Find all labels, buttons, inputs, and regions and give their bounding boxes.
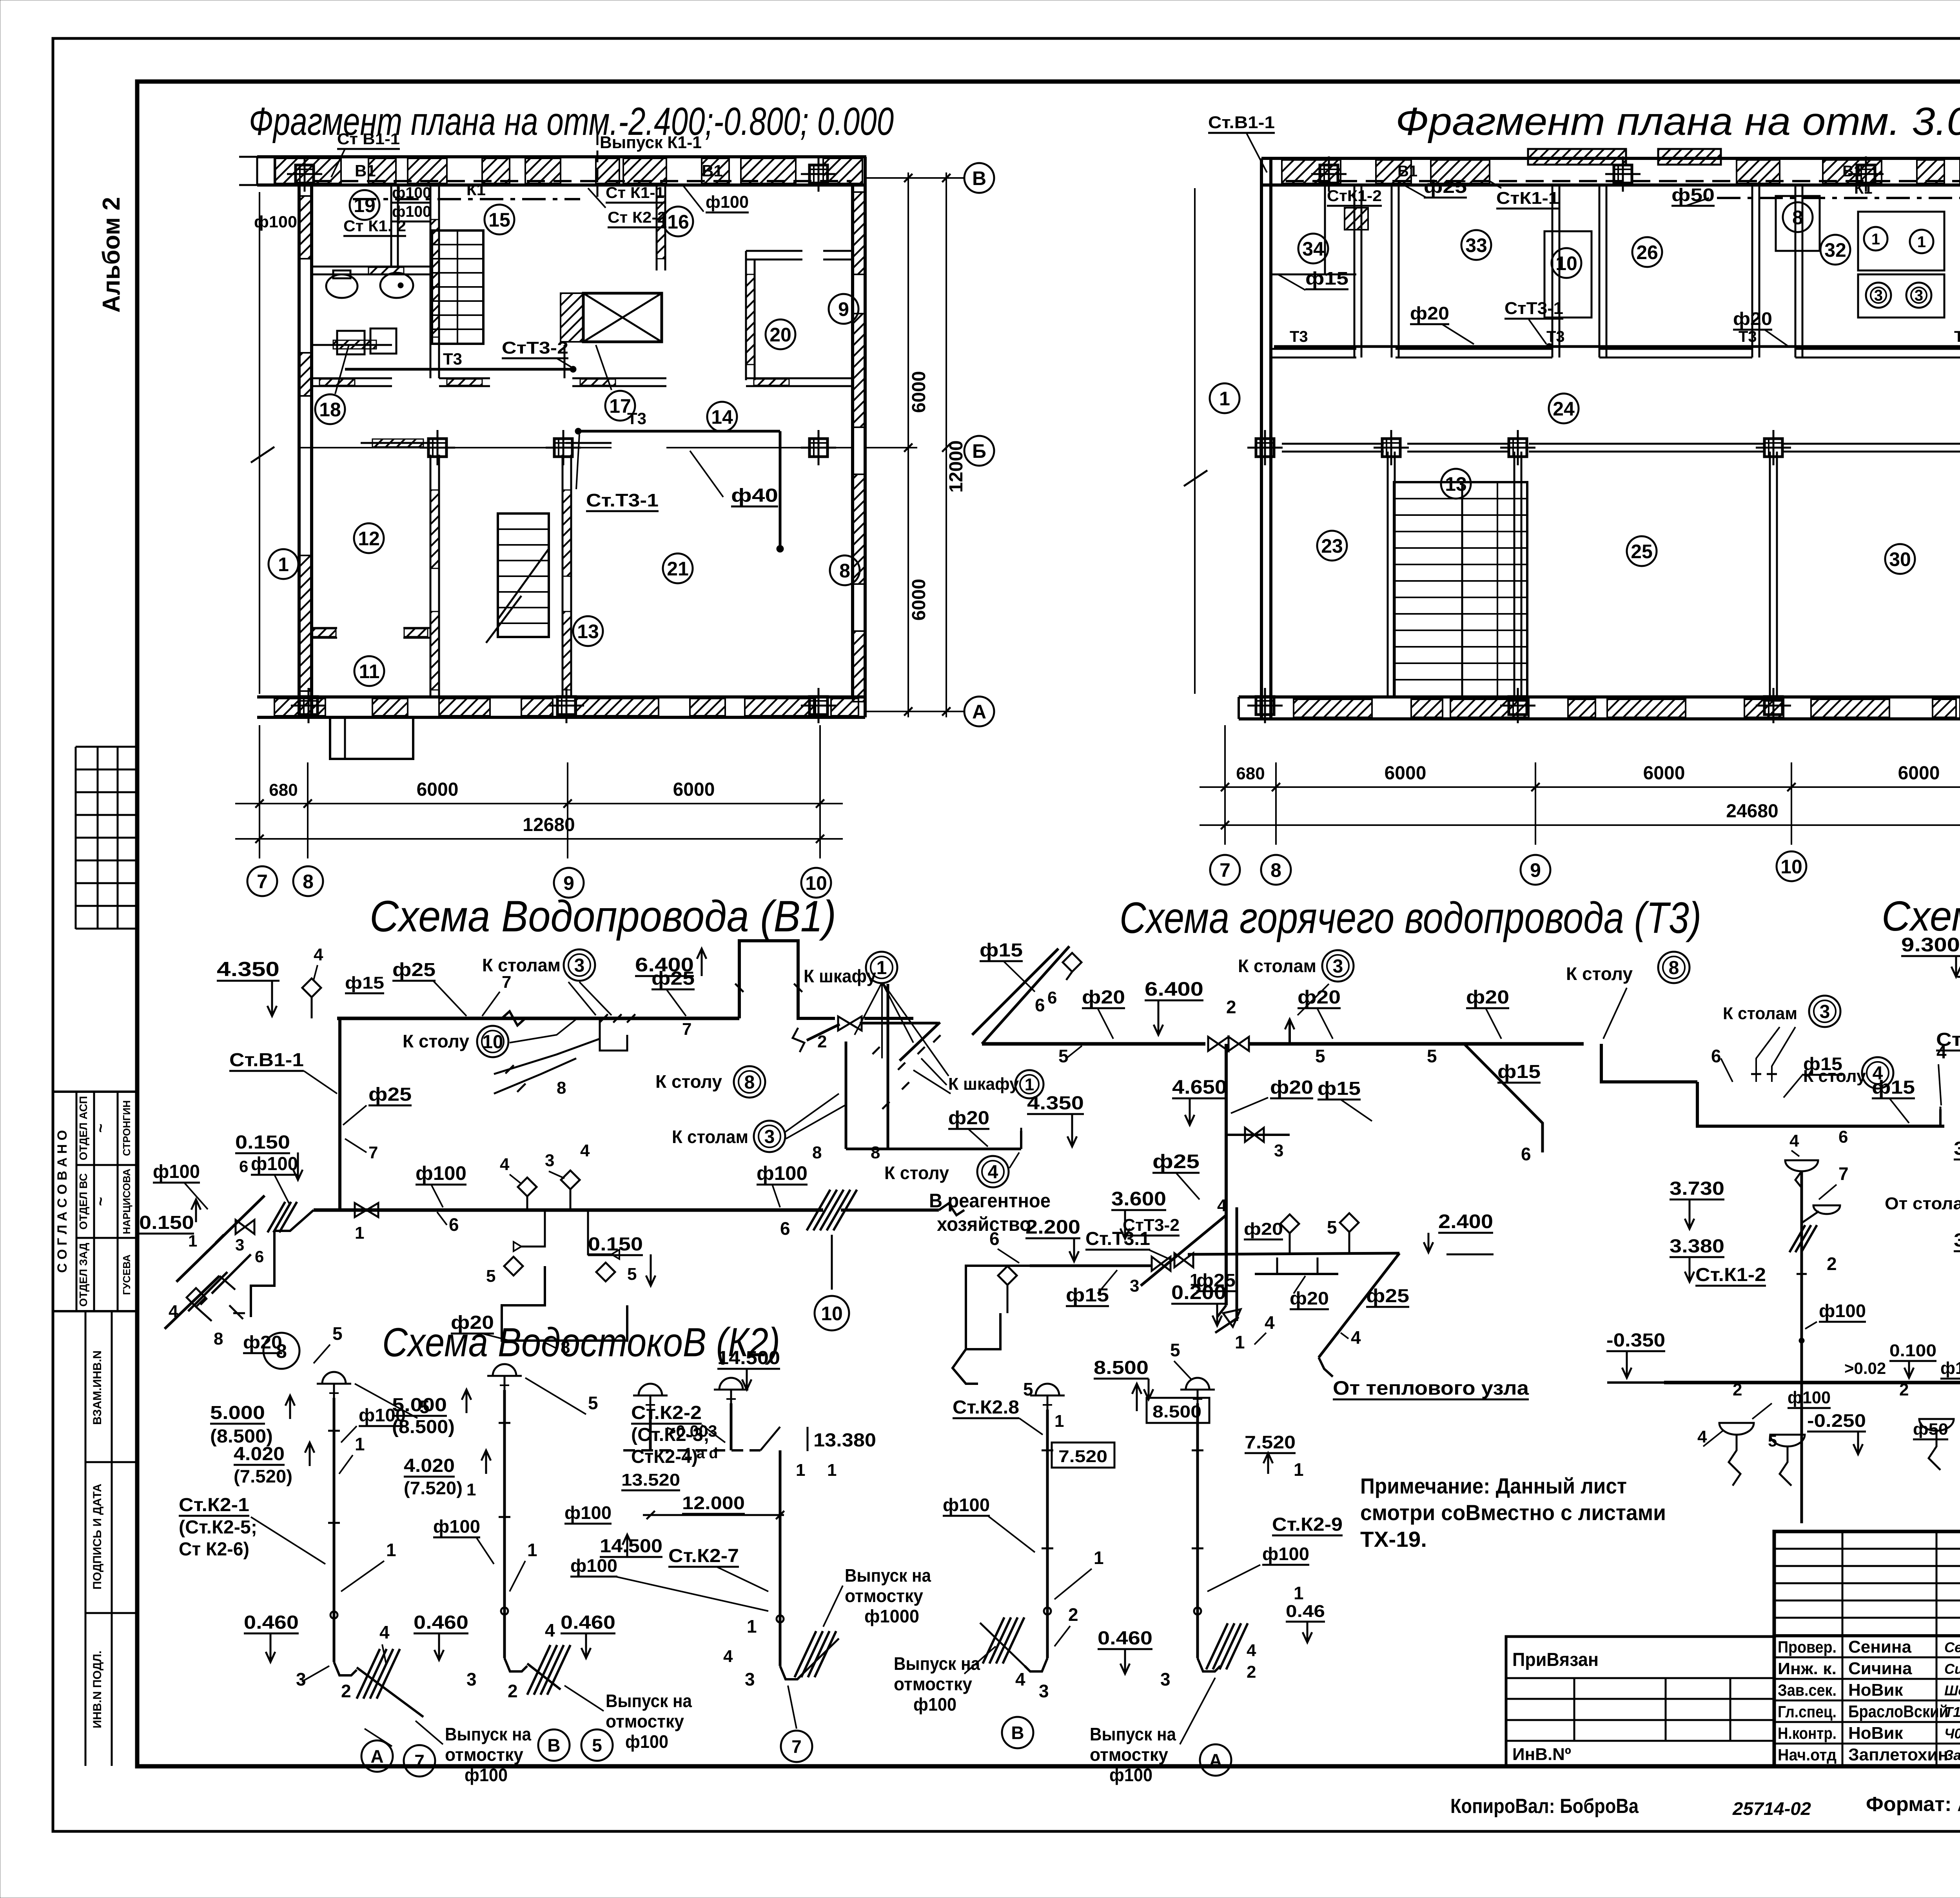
- svg-text:6: 6: [449, 1214, 459, 1235]
- svg-text:1: 1: [877, 958, 887, 978]
- svg-text:К столу: К столу: [403, 1031, 469, 1051]
- svg-text:ф20: ф20: [1466, 987, 1509, 1008]
- svg-text:5: 5: [332, 1323, 343, 1344]
- svg-text:В1: В1: [702, 161, 723, 180]
- plan1 pipe V1: [314, 161, 851, 181]
- svg-text:21: 21: [667, 558, 689, 580]
- plan1 label StK1-2: [343, 218, 406, 236]
- V1 label K stolam 3: [482, 949, 612, 1015]
- svg-text:отмостку: отмостку: [845, 1586, 923, 1606]
- svg-text:Примечание: Данный лист: Примечание: Данный лист: [1360, 1473, 1627, 1498]
- svg-text:ГУСЕВА: ГУСЕВА: [121, 1254, 132, 1295]
- svg-text:ф100: ф100: [757, 1162, 808, 1184]
- plan1 bottom dims: [235, 725, 843, 858]
- svg-text:6: 6: [780, 1218, 790, 1239]
- T3 label f20 drop: [1231, 1077, 1313, 1113]
- svg-text:4.020: 4.020: [234, 1444, 285, 1464]
- V1 label v reagentnoe: [929, 1190, 1051, 1235]
- svg-text:4.350: 4.350: [1027, 1093, 1084, 1114]
- svg-text:3.730: 3.730: [1670, 1178, 1724, 1199]
- svg-text:ф15: ф15: [1497, 1062, 1541, 1082]
- plan1 label StK1-1: [606, 184, 664, 203]
- svg-text:2: 2: [1226, 997, 1236, 1017]
- svg-text:НАРЦИСОВА: НАРЦИСОВА: [121, 1169, 132, 1234]
- svg-text:ф100: ф100: [913, 1694, 956, 1715]
- svg-text:Зав.сек.: Зав.сек.: [1778, 1681, 1837, 1699]
- plan2 room circle 26: [1632, 237, 1662, 267]
- svg-text:ИнВ.Nº: ИнВ.Nº: [1512, 1745, 1571, 1764]
- svg-text:В реагентное: В реагентное: [929, 1190, 1051, 1212]
- svg-text:4: 4: [580, 1141, 590, 1160]
- svg-text:5: 5: [592, 1735, 602, 1756]
- svg-text:9.300: 9.300: [1901, 934, 1960, 956]
- svg-text:1: 1: [1094, 1548, 1104, 1568]
- svg-text:(Ст.К2-5;: (Ст.К2-5;: [179, 1517, 257, 1538]
- plan1 column B8 top: [287, 156, 322, 192]
- svg-text:ОТДЕЛ ВС: ОТДЕЛ ВС: [77, 1173, 89, 1230]
- svg-text:5: 5: [1327, 1217, 1337, 1238]
- plan2 pipe V1 top: [1286, 163, 1960, 181]
- svg-text:8: 8: [557, 1078, 566, 1098]
- svg-text:Т3: Т3: [443, 350, 462, 368]
- T3 right cluster: [1711, 996, 1848, 1147]
- svg-text:В1: В1: [355, 161, 376, 180]
- svg-text:7: 7: [682, 1020, 691, 1039]
- svg-text:ф25: ф25: [1366, 1286, 1409, 1306]
- svg-text:Ст.К2.8: Ст.К2.8: [953, 1397, 1019, 1418]
- svg-text:Ч05: Ч05: [1944, 1726, 1960, 1742]
- svg-text:ф100: ф100: [564, 1502, 612, 1523]
- svg-text:5: 5: [1768, 1432, 1777, 1450]
- plan2 room circle 23: [1317, 531, 1347, 561]
- inventory strip: [85, 1311, 138, 1766]
- svg-text:Шов: Шов: [1944, 1682, 1960, 1698]
- bottom captions: [1450, 1793, 1960, 1819]
- svg-text:ф100: ф100: [625, 1731, 668, 1752]
- svg-text:От стола: От стола: [1885, 1194, 1960, 1213]
- K1 bottom main: [1664, 1359, 1960, 1408]
- svg-text:Ст К1-1: Ст К1-1: [606, 184, 664, 201]
- svg-text:25714-02: 25714-02: [1732, 1798, 1811, 1819]
- plan1 axis line 1: [251, 192, 274, 694]
- V1 label f25 mid: [652, 968, 695, 1039]
- plan1 column B9 top: [801, 156, 836, 192]
- svg-text:В: В: [1011, 1723, 1024, 1743]
- svg-text:13: 13: [577, 621, 599, 642]
- plan1 axis circle 1: [269, 549, 298, 579]
- V1 right diag top: [972, 949, 1058, 1035]
- svg-text:К столу: К столу: [1566, 964, 1633, 984]
- svg-text:-0.350: -0.350: [1606, 1330, 1665, 1351]
- svg-text:8: 8: [744, 1072, 755, 1093]
- svg-text:7: 7: [1838, 1163, 1849, 1184]
- svg-text:ф100: ф100: [706, 192, 749, 212]
- title block main frame: [1774, 1531, 1960, 1766]
- plan2 axis circle 8: [1261, 855, 1291, 885]
- V1 left labels: [139, 1132, 303, 1353]
- svg-text:3: 3: [1820, 1002, 1830, 1022]
- plan1 toilet 1: [326, 270, 358, 298]
- svg-text:11: 11: [359, 660, 380, 682]
- svg-text:ф100: ф100: [1788, 1388, 1831, 1407]
- svg-text:Ст.К2-7: Ст.К2-7: [668, 1546, 739, 1566]
- svg-text:8: 8: [214, 1329, 223, 1348]
- K2 riser5 labels: [1132, 1340, 1343, 1689]
- svg-text:НоВик: НоВик: [1848, 1724, 1903, 1743]
- svg-text:0.150: 0.150: [235, 1132, 290, 1153]
- T3 label f20 mid: [1298, 987, 1341, 1066]
- plan1 axis B walls: [298, 439, 853, 448]
- svg-text:34: 34: [1302, 238, 1324, 260]
- svg-text:Схема канализации(К1): Схема канализации(К1): [1882, 892, 1960, 940]
- svg-text:Ст.В1-1: Ст.В1-1: [229, 1050, 304, 1071]
- svg-text:680: 680: [1236, 764, 1265, 783]
- svg-text:К столам: К столам: [1723, 1004, 1797, 1023]
- T3 label f15 right2: [1872, 1042, 1947, 1123]
- K2 riser4 labels: [943, 1357, 1153, 1701]
- svg-text:ф50: ф50: [1913, 1420, 1948, 1438]
- svg-text:6: 6: [1711, 1046, 1721, 1066]
- svg-text:Зам: Зам: [1944, 1747, 1960, 1763]
- svg-text:2: 2: [1899, 1380, 1909, 1399]
- svg-text:Заплетохин: Заплетохин: [1848, 1745, 1948, 1764]
- svg-text:4: 4: [1873, 1063, 1883, 1084]
- K1 toilets group2: [1913, 1406, 1960, 1470]
- svg-text:6000: 6000: [673, 779, 715, 800]
- svg-text:СТРОНГИН: СТРОНГИН: [121, 1100, 132, 1156]
- svg-text:2: 2: [341, 1681, 351, 1701]
- svg-text:К столу: К столу: [655, 1071, 722, 1092]
- svg-text:19: 19: [354, 194, 376, 216]
- K1 label f100 sub: [1799, 1301, 1866, 1343]
- V1 label K shkafu 1 right: [913, 1058, 1044, 1098]
- svg-text:1: 1: [1294, 1459, 1304, 1480]
- svg-text:5: 5: [486, 1267, 495, 1286]
- plan1 pipe T3 corridor: [345, 350, 576, 372]
- svg-text:6: 6: [1035, 995, 1045, 1015]
- svg-text:7: 7: [791, 1737, 802, 1757]
- plan2 room circle 32: [1820, 235, 1850, 265]
- svg-text:Схема Водопровода (В1): Схема Водопровода (В1): [370, 892, 836, 941]
- T3 drop riser: [1217, 1044, 1226, 1317]
- plan1 room circle 12: [354, 523, 384, 553]
- svg-text:В1: В1: [1397, 163, 1417, 180]
- plan1 sink boxes: [337, 328, 396, 354]
- svg-text:(8.500): (8.500): [392, 1417, 455, 1437]
- svg-text:Сенина: Сенина: [1848, 1637, 1911, 1657]
- svg-text:Н.контр.: Н.контр.: [1778, 1724, 1837, 1742]
- svg-text:4: 4: [169, 1302, 178, 1321]
- svg-text:1: 1: [1871, 230, 1880, 248]
- svg-text:5: 5: [1023, 1379, 1033, 1399]
- plan2 bottom wall: [1239, 697, 1960, 719]
- plan2 fixtures 1 1: [1858, 212, 1944, 270]
- svg-text:5: 5: [1315, 1046, 1325, 1066]
- T3 lower left branch: [953, 1253, 1199, 1384]
- K2 riser pair: [623, 1378, 803, 1679]
- T3 label f25 diag: [1141, 1150, 1227, 1286]
- svg-text:0.460: 0.460: [244, 1612, 299, 1633]
- T3 label ot teplovogo uzla: [1333, 1377, 1529, 1399]
- T3 valve 1 bottom: [1215, 1309, 1275, 1352]
- svg-text:3: 3: [1039, 1681, 1049, 1701]
- svg-text:7: 7: [257, 871, 268, 893]
- svg-text:ф20: ф20: [1410, 303, 1449, 323]
- V1 label f100 main: [757, 1162, 808, 1239]
- svg-text:4.350: 4.350: [217, 958, 279, 981]
- svg-text:К1: К1: [466, 180, 486, 199]
- svg-text:Альбом 2: Альбом 2: [98, 197, 125, 312]
- svg-text:15: 15: [488, 209, 510, 231]
- svg-text:10: 10: [1780, 856, 1802, 878]
- svg-text:К столам: К столам: [482, 955, 561, 975]
- svg-text:Выпуск К1-1: Выпуск К1-1: [600, 133, 702, 152]
- plan1 label f40: [690, 451, 778, 506]
- V1 label K stolu 10: [403, 1019, 576, 1057]
- T3 label 6400: [1145, 978, 1203, 1035]
- svg-text:3.380: 3.380: [1954, 1230, 1960, 1251]
- svg-text:А: А: [1209, 1750, 1222, 1771]
- V1 label 6400: [635, 949, 706, 976]
- V1 label K stolam 3 right: [672, 1094, 845, 1152]
- svg-text:17: 17: [609, 395, 631, 417]
- scheme V1 title: [370, 892, 836, 941]
- K2 riser 5: [1180, 1378, 1248, 1671]
- plan2 axis circle 10: [1777, 851, 1806, 881]
- V1 label St V1-1: [229, 1050, 337, 1094]
- left margin upper table: [76, 747, 138, 929]
- svg-text:1: 1: [1054, 1412, 1064, 1431]
- svg-text:1: 1: [1219, 388, 1230, 410]
- svg-text:3: 3: [574, 955, 585, 976]
- T3 label f25 mid2: [1196, 1270, 1236, 1291]
- svg-text:4.020: 4.020: [404, 1455, 455, 1476]
- svg-text:0.46: 0.46: [1286, 1602, 1325, 1621]
- svg-text:4: 4: [988, 1162, 998, 1183]
- svg-text:13: 13: [1445, 473, 1467, 495]
- plan2 axis B walls: [1282, 444, 1960, 452]
- K1 label 3.730: [1670, 1178, 1724, 1229]
- plan1 axis circle 7: [247, 866, 277, 896]
- svg-text:1: 1: [1235, 1332, 1245, 1352]
- svg-text:33: 33: [1465, 234, 1487, 256]
- svg-text:ф20: ф20: [1270, 1077, 1313, 1098]
- svg-text:2: 2: [1733, 1380, 1742, 1399]
- svg-text:ф25: ф25: [1424, 176, 1467, 197]
- svg-text:ф100: ф100: [251, 1154, 298, 1174]
- plan1 column A9: [549, 688, 584, 723]
- svg-text:>0.02: >0.02: [1844, 1359, 1886, 1377]
- svg-text:(7.520): (7.520): [234, 1466, 292, 1486]
- V1 right branch: [793, 984, 1021, 1149]
- T3 label f20 right: [1427, 987, 1509, 1066]
- plan2 axis B columns: [1247, 430, 1960, 465]
- svg-text:680: 680: [269, 780, 298, 800]
- K1 label St K1-1: [1936, 1029, 1960, 1077]
- privyazan table: [1506, 1637, 1774, 1766]
- svg-text:5: 5: [1427, 1046, 1437, 1066]
- K2 vypusk label 4: [894, 1646, 996, 1715]
- plan1 label StV1-1: [331, 131, 400, 177]
- V1 break marks: [502, 1011, 525, 1025]
- svg-text:0.460: 0.460: [414, 1612, 468, 1633]
- svg-text:ОТДЕЛ АСП: ОТДЕЛ АСП: [77, 1096, 89, 1160]
- K1 branch ot stola 10: [1885, 1185, 1960, 1270]
- K1 sub riser K1-2: [1785, 1131, 1849, 1523]
- scheme K1 title: [1882, 892, 1960, 940]
- V1 label K stolu 8: [655, 1066, 765, 1098]
- svg-text:4: 4: [379, 1622, 390, 1642]
- svg-text:3: 3: [764, 1127, 775, 1147]
- V1 mid assembly: [486, 1141, 637, 1341]
- svg-text:13.520: 13.520: [621, 1470, 680, 1490]
- svg-text:ф100: ф100: [465, 1765, 508, 1785]
- svg-text:ИНВ.N ПОДЛ.: ИНВ.N ПОДЛ.: [91, 1651, 104, 1729]
- plan2 interior walls top band: [1354, 185, 1960, 357]
- plan1 label StK2-2: [588, 188, 666, 227]
- T3 label f25 diag2: [1341, 1286, 1409, 1348]
- svg-text:6: 6: [255, 1247, 264, 1266]
- svg-text:14.500: 14.500: [717, 1348, 780, 1368]
- plan1 room circle 14: [707, 402, 737, 432]
- svg-text:Т3: Т3: [1954, 328, 1960, 345]
- svg-text:ф100: ф100: [1819, 1301, 1866, 1321]
- svg-text:5: 5: [1170, 1340, 1180, 1360]
- plan1 pipe T3 lower: [575, 409, 784, 552]
- title block signature rows: [1774, 1637, 1960, 1764]
- svg-text:Выпуск на: Выпуск на: [606, 1691, 692, 1711]
- V1 label f25 riser: [343, 1084, 412, 1162]
- plan2 room circle 8: [1776, 196, 1820, 251]
- plan1 label St T3-2: [502, 338, 572, 368]
- svg-text:14: 14: [711, 406, 733, 428]
- svg-text:К столам: К столам: [672, 1127, 748, 1147]
- svg-text:1: 1: [188, 1232, 197, 1250]
- T3 valve 3: [1226, 1128, 1290, 1160]
- plan1 room circle 17: [596, 345, 635, 421]
- svg-text:4: 4: [1351, 1327, 1361, 1348]
- svg-text:Нач.отд: Нач.отд: [1778, 1746, 1837, 1764]
- svg-text:4: 4: [1217, 1196, 1227, 1215]
- svg-text:Гл.спец.: Гл.спец.: [1778, 1702, 1837, 1721]
- svg-text:ф20: ф20: [1082, 987, 1125, 1008]
- svg-text:0.150: 0.150: [588, 1234, 643, 1255]
- svg-text:6000: 6000: [1643, 763, 1685, 784]
- plan1 room circle 21: [663, 553, 693, 583]
- plan1 room circle 13: [573, 616, 603, 646]
- svg-text:ф25: ф25: [652, 968, 695, 989]
- svg-text:Провер.: Провер.: [1778, 1638, 1837, 1656]
- plan2 room circle 24: [1549, 394, 1579, 423]
- V1 label f20 bottom: [451, 1312, 570, 1357]
- svg-text:отмостку: отмостку: [606, 1711, 684, 1731]
- V1 label 4.350: [217, 958, 279, 1016]
- svg-text:Формат: А2: Формат: А2: [1866, 1793, 1960, 1816]
- svg-text:3: 3: [745, 1669, 755, 1689]
- T3 main pipe: [982, 1044, 1944, 1126]
- svg-text:Выпуск на: Выпуск на: [845, 1565, 931, 1586]
- K2 vypusk label 2: [564, 1686, 692, 1752]
- plan1 column b9: [546, 430, 581, 465]
- T3 valves: [1208, 997, 1249, 1051]
- svg-text:0.200: 0.200: [1171, 1281, 1226, 1303]
- svg-text:1: 1: [1025, 1075, 1034, 1094]
- svg-text:8.500: 8.500: [1152, 1402, 1201, 1421]
- plan1 stair enclosure wall: [430, 185, 439, 697]
- svg-text:3: 3: [1333, 956, 1343, 977]
- svg-text:НоВик: НоВик: [1848, 1680, 1903, 1700]
- svg-text:Инж. к.: Инж. к.: [1778, 1659, 1837, 1678]
- svg-text:Схема горячего водопровода (Т: Схема горячего водопровода (Т3): [1120, 893, 1701, 942]
- svg-text:Ст.К1-2: Ст.К1-2: [1695, 1265, 1766, 1285]
- svg-text:ПриВязан: ПриВязан: [1512, 1649, 1599, 1670]
- svg-text:1: 1: [355, 1434, 365, 1454]
- plan2 room circle 30: [1885, 544, 1915, 574]
- T3 label 2.200: [1025, 1216, 1080, 1261]
- svg-text:3: 3: [1874, 287, 1883, 304]
- plan1 column b10: [801, 430, 836, 465]
- svg-text:~: ~: [92, 1123, 109, 1132]
- svg-text:ф100: ф100: [1262, 1544, 1309, 1564]
- svg-text:0.460: 0.460: [1098, 1628, 1152, 1649]
- V1 wall crossing: [807, 1190, 857, 1290]
- K2 riser 4: [980, 1384, 1065, 1671]
- svg-text:отмостку: отмостку: [894, 1674, 972, 1694]
- svg-text:1: 1: [796, 1461, 805, 1480]
- svg-text:Т1: Т1: [1944, 1704, 1960, 1720]
- svg-text:1: 1: [1917, 233, 1926, 250]
- plan2 room circle 13: [1441, 469, 1471, 499]
- T3 mid lower pipe: [1188, 1253, 1399, 1377]
- plan1 room20 walls: [746, 251, 853, 380]
- T3 label 2.400: [1424, 1210, 1494, 1254]
- svg-text:2: 2: [508, 1681, 518, 1701]
- plan1 axis circle 8: [293, 866, 323, 896]
- svg-text:0.460: 0.460: [561, 1612, 615, 1633]
- svg-text:5: 5: [588, 1393, 598, 1413]
- svg-text:К столу: К столу: [1803, 1067, 1866, 1086]
- V1 top left diamonds: [302, 945, 384, 1018]
- svg-text:6: 6: [989, 1228, 1000, 1249]
- plan1 room circle 16: [663, 207, 693, 236]
- svg-text:Т3: Т3: [1546, 328, 1565, 345]
- svg-text:2: 2: [1827, 1254, 1837, 1274]
- svg-text:2.400: 2.400: [1438, 1210, 1493, 1232]
- K2 riser pair labels: [561, 1348, 876, 1689]
- K1 label -0.350: [1606, 1330, 1665, 1383]
- K2 riser2 labels: [392, 1378, 598, 1701]
- svg-text:5: 5: [1058, 1046, 1069, 1066]
- svg-text:10: 10: [1555, 252, 1577, 274]
- title block left grid: [1774, 1531, 1960, 1766]
- svg-text:ф20: ф20: [1733, 308, 1772, 329]
- V1 valve 2: [817, 1016, 862, 1051]
- svg-text:СтК1-1: СтК1-1: [1496, 189, 1559, 208]
- svg-text:(7.520): (7.520): [404, 1478, 463, 1498]
- plan2 labels top: [1208, 113, 1960, 350]
- svg-text:Ст.К2-9: Ст.К2-9: [1272, 1514, 1343, 1535]
- svg-text:Выпуск на: Выпуск на: [1090, 1724, 1176, 1744]
- K2 circle B 2: [1002, 1717, 1033, 1748]
- plan1 wall between 15 16: [657, 185, 665, 270]
- plan1 bottom wall: [257, 697, 865, 717]
- svg-text:ф100: ф100: [570, 1555, 617, 1576]
- V1 circle 10 bottom: [815, 1296, 849, 1330]
- svg-text:Ст К2-2: Ст К2-2: [608, 209, 666, 226]
- svg-text:6: 6: [1521, 1144, 1531, 1164]
- V1 bottom main pipe: [314, 1203, 964, 1215]
- svg-text:3.380: 3.380: [1670, 1236, 1724, 1257]
